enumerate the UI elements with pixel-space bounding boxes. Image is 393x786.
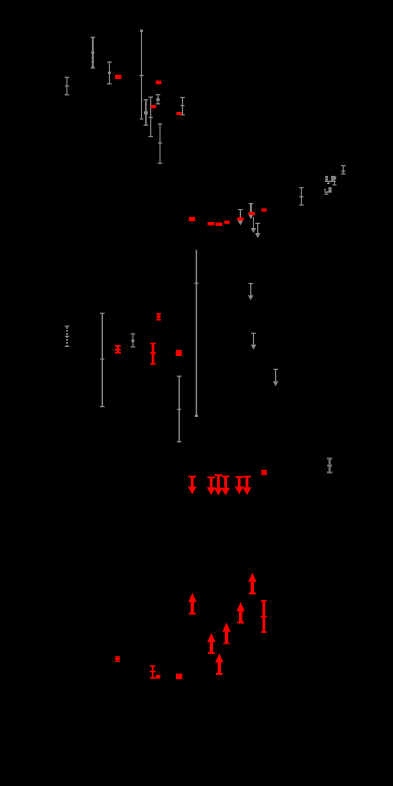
red mini errorbar R6 <box>261 470 267 475</box>
gray bold errorbar E17 <box>327 458 332 474</box>
red dash D10 <box>248 212 255 215</box>
red down arrow DA5 <box>235 476 244 494</box>
gray mini vbar b <box>333 181 337 185</box>
gray errorbar E7 <box>156 94 161 104</box>
red down arrow DA6 <box>243 476 252 495</box>
red dash D11 <box>261 209 267 212</box>
gray errorbar E9 <box>180 97 185 115</box>
red down arrow DA4 <box>221 476 230 496</box>
gray mini hline upper <box>325 181 336 182</box>
red up arrow UA4 <box>222 623 230 645</box>
gray errorbar E10 <box>299 187 304 205</box>
gray down arrow A4 <box>255 223 261 238</box>
gray errorbar E6 <box>148 97 153 138</box>
gray errorbar E3 <box>107 62 112 85</box>
gray down arrow A5 <box>248 283 254 300</box>
gray errorbar E14 <box>131 333 136 347</box>
red dash D9 <box>237 217 244 220</box>
red errorbar R1 <box>156 313 161 320</box>
red dash D2 <box>156 81 162 85</box>
gray errorbar E2 <box>91 37 96 69</box>
gray errorbar E16 tall <box>194 250 198 417</box>
red down arrow DA1 <box>188 476 197 495</box>
red up arrow UA5 <box>207 633 215 654</box>
gray errorbar E12 dashed <box>65 326 70 347</box>
red dash D6 <box>208 222 215 225</box>
red up arrow UA6 <box>215 653 223 675</box>
gray errorbar E11 <box>341 165 346 174</box>
gray errorbar E4 tall <box>140 30 144 120</box>
red point R3 <box>176 350 182 356</box>
red errorbar R5 <box>150 665 161 678</box>
red up arrow UA3 <box>237 602 245 623</box>
red errorbar R9 <box>115 345 121 354</box>
gray errorbar E13 tall <box>100 313 105 408</box>
gray mini cluster squares upper <box>325 176 336 182</box>
gray mini vbar a <box>327 181 330 184</box>
gray mini cluster squares lower <box>324 187 332 192</box>
red dash D3 <box>151 105 156 108</box>
red errorbar R4 <box>261 600 267 633</box>
red errorbar R2 <box>150 343 156 365</box>
gray down arrow A7 <box>273 369 279 387</box>
gray down arrow A1 <box>238 209 244 225</box>
red dash D4 <box>176 112 181 115</box>
gray down arrow A2 <box>248 203 254 219</box>
red mini errorbar R7 <box>115 656 120 662</box>
gray errorbar E5 <box>144 99 149 126</box>
gray mini vbar c <box>325 192 329 195</box>
red dash D7 <box>216 223 223 226</box>
red up arrow UA1 <box>188 593 196 615</box>
gray errorbar E15 <box>177 376 182 443</box>
red dash D1 <box>115 75 121 79</box>
red down arrow DA2 <box>207 477 216 496</box>
red up arrow UA2 <box>248 573 256 595</box>
red square R8 <box>176 674 182 680</box>
gray down arrow A3 <box>251 217 257 233</box>
gray errorbar E8 <box>158 123 163 163</box>
gray mini hline lower <box>324 191 331 192</box>
gray down arrow A6 <box>251 333 257 350</box>
gray errorbar E1 <box>65 77 70 96</box>
red dash D8 <box>224 221 230 224</box>
red down arrow DA3 <box>214 474 223 495</box>
red dash D5 <box>189 217 195 221</box>
